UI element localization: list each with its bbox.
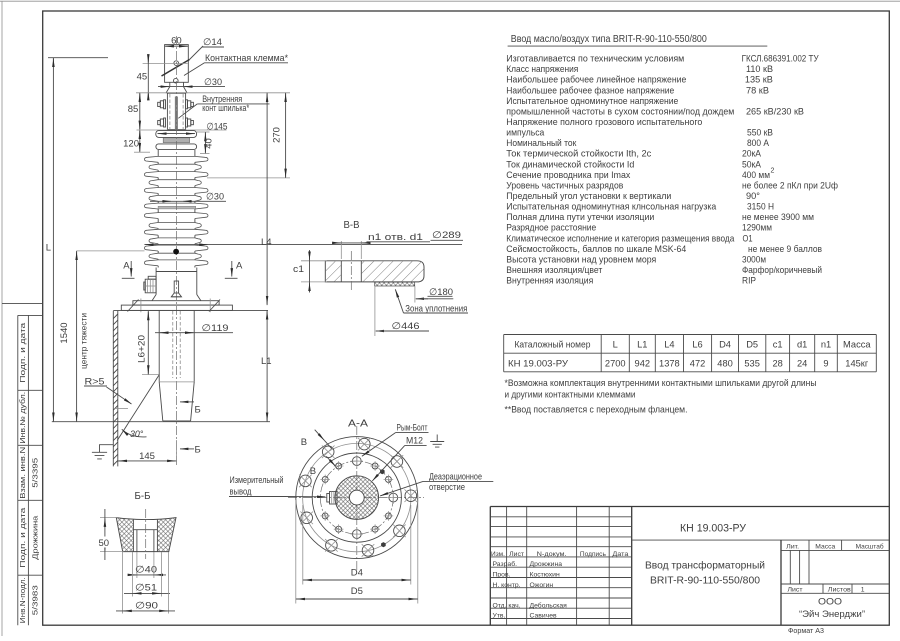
svg-text:вывод: вывод [230,487,253,497]
svg-text:А: А [236,261,243,272]
svg-text:c1: c1 [293,264,304,274]
svg-text:В: В [310,466,316,477]
svg-text:Сейсмостойкость, баллов по шка: Сейсмостойкость, баллов по шкале MSK-64 [506,244,686,254]
svg-text:5/3395: 5/3395 [33,458,40,488]
sheet outer border [0,0,900,2]
svg-text:Изготавливается по техническим: Изготавливается по техническим условиям [506,54,684,64]
svg-text:∅30: ∅30 [206,192,224,203]
A-A outer circles [296,437,418,559]
catalog table grid [504,334,877,336]
title block outer [490,506,889,508]
svg-text:Разрядное расстояние: Разрядное расстояние [506,223,596,233]
svg-text:Утв.: Утв. [493,613,506,620]
deaeration holes (hex) [380,469,385,474]
svg-text:Сечение проводника при Imax: Сечение проводника при Imax [506,170,630,180]
svg-text:Деаэрационное: Деаэрационное [429,472,482,482]
cone diagonal [117,375,159,441]
dim 45 [147,57,149,99]
svg-text:В-В: В-В [344,220,360,231]
svg-text:Пров.: Пров. [493,572,511,579]
svg-text:D5: D5 [351,586,363,597]
svg-text:24: 24 [797,358,807,368]
svg-text:550 кВ: 550 кВ [747,128,773,138]
terminal body [165,45,189,83]
dim L4 [266,93,268,305]
svg-text:Формат А3: Формат А3 [788,626,824,635]
svg-text:1378: 1378 [659,358,680,368]
svg-text:Уровень частичных разрядов: Уровень частичных разрядов [506,180,623,190]
svg-text:535: 535 [744,358,760,368]
dim D4 [302,505,304,585]
svg-text:импульса: импульса [506,128,545,138]
svg-text:А: А [123,261,130,272]
svg-text:Ток термической стойкости Ith,: Ток термической стойкости Ith, 2с [506,149,651,159]
svg-text:ООО: ООО [818,597,842,608]
svg-text:**Ввод поставляется с переход: **Ввод поставляется с переходным фланцем… [505,405,688,415]
svg-text:промышленной частоты в сухом с: промышленной частоты в сухом состоянии/п… [506,107,734,117]
svg-text:Класс напряжения: Класс напряжения [506,64,578,74]
terminal hole upper [174,61,179,66]
B-B flange body [325,261,424,282]
svg-text:Костюхин: Костюхин [530,572,560,579]
cement band mid [158,206,196,209]
svg-text:“Эйч Энерджи”: “Эйч Энерджи” [799,609,865,620]
dim d145 ref line [137,129,227,131]
svg-text:270: 270 [272,127,283,143]
svg-text:и другими контактными клеммами: и другими контактными клеммами [505,390,636,400]
svg-text:М12: М12 [406,436,423,446]
svg-text:45: 45 [137,72,148,83]
svg-text:∅90: ∅90 [135,600,158,611]
stud bolts [164,100,166,109]
svg-text:Измерительный: Измерительный [230,475,284,485]
dim 85 [139,93,141,130]
dim 50 [100,517,118,519]
A-A small holes ring [387,491,399,503]
ground symbol wall [92,445,113,459]
svg-text:3150 Н: 3150 Н [747,202,774,212]
svg-text:Инв.№ дубл.: Инв.№ дубл. [19,392,27,444]
center of gravity dot [173,249,179,255]
svg-text:Фарфор/коричневый: Фарфор/коричневый [742,265,822,275]
dim d30 neck [158,86,225,88]
dim 145 [175,440,177,465]
A-A axes [356,426,358,570]
tube [158,310,160,382]
svg-text:Каталожный номер: Каталожный номер [514,339,590,349]
svg-text:Полная длина пути утечки изоля: Полная длина пути утечки изоляции [506,212,654,222]
svg-text:145кг: 145кг [845,358,869,368]
svg-text:2: 2 [771,168,775,175]
bottom pin [174,281,178,293]
svg-text:472: 472 [690,358,706,368]
svg-text:не менее 9 баллов: не менее 9 баллов [748,244,822,254]
svg-text:КН 19.003-РУ: КН 19.003-РУ [508,358,568,368]
svg-text:30°: 30° [130,429,144,439]
svg-text:Рым-Болт: Рым-Болт [397,423,428,433]
dim 1540 [76,251,78,422]
svg-text:Б: Б [195,405,201,416]
svg-text:265 кВ/230 кВ: 265 кВ/230 кВ [746,107,804,117]
dim d30 core [150,200,226,202]
measuring tap box [145,279,156,293]
svg-text:Листов: Листов [828,587,851,594]
svg-text:145: 145 [139,451,155,462]
svg-text:50: 50 [99,538,110,549]
dim D5 [295,500,297,604]
svg-text:Внешняя изоляция/цвет: Внешняя изоляция/цвет [506,265,603,275]
flange hole marks [140,299,142,313]
svg-text:Дата: Дата [612,551,628,558]
svg-text:L: L [613,339,618,349]
svg-text:Б: Б [195,445,201,456]
svg-text:Контактная клемма*: Контактная клемма* [205,53,288,63]
ground symbol A-A [430,435,444,448]
cement band [163,138,189,143]
svg-text:Отд. кач.: Отд. кач. [493,602,521,609]
dim d145 arrows [157,133,195,135]
svg-text:Масштаб: Масштаб [856,542,884,550]
flange plates [133,301,219,305]
dim 120 [139,130,141,152]
svg-text:D5: D5 [746,339,758,349]
base cylinder [155,268,157,295]
svg-text:Масса: Масса [815,543,835,550]
dim c1 [301,260,327,262]
svg-text:85: 85 [128,104,139,115]
d14 leader diagonal [162,60,190,77]
hidden lines in stud [169,94,171,129]
dim L6+20 [142,374,160,376]
svg-text:D4: D4 [719,339,731,349]
svg-text:120: 120 [123,139,139,150]
dim 60 [165,45,189,47]
left column cells [2,303,43,305]
svg-text:d1: d1 [797,339,807,349]
svg-text:∅40: ∅40 [135,564,157,575]
dim d90 [122,552,124,614]
svg-text:L6: L6 [692,339,702,349]
svg-text:800 А: 800 А [747,138,770,148]
svg-text:90°: 90° [746,191,760,201]
svg-text:Масса: Масса [843,339,871,349]
B section arrows [180,401,194,403]
svg-text:Испытательное одноминутное нап: Испытательное одноминутное напряжение [506,96,678,106]
svg-text:Лит.: Лит. [786,543,799,550]
svg-text:5/3983: 5/3983 [33,585,40,615]
dim d40 [136,552,138,578]
dim d119 [155,332,233,334]
svg-text:Ожогин: Ожогин [530,582,554,589]
svg-text:50кА: 50кА [742,159,762,169]
inner contact stud rod [175,97,178,130]
svg-text:∅446: ∅446 [392,321,420,332]
svg-text:А-А: А-А [348,419,369,430]
top ref line long [136,92,290,94]
svg-text:∅289: ∅289 [432,230,461,241]
svg-text:1540: 1540 [59,322,70,343]
svg-text:Дрожжина: Дрожжина [33,516,40,560]
svg-text:∅30: ∅30 [204,77,222,88]
stud body [167,93,185,129]
svg-text:Наибольшее рабочее линейное на: Наибольшее рабочее линейное напряжение [506,75,686,85]
svg-text:Ввод масло/воздух типа BRIT-R-: Ввод масло/воздух типа BRIT-R-90-110-550… [511,34,707,45]
svg-text:n1: n1 [821,339,831,349]
svg-text:не менее 3900 мм: не менее 3900 мм [742,212,814,222]
svg-text:2700: 2700 [605,358,626,368]
svg-text:Ток динамической стойкости Id: Ток динамической стойкости Id [506,159,634,169]
svg-text:L4: L4 [664,339,674,349]
svg-text:Дебольская: Дебольская [530,601,568,609]
svg-text:Наибольшее рабочее фазное напр: Наибольшее рабочее фазное напряжение [506,85,674,95]
svg-text:28: 28 [773,358,783,368]
svg-text:Испытательная одноминутная клн: Испытательная одноминутная клнсольная на… [506,202,717,212]
svg-text:Предельный угол установки к ве: Предельный угол установки к вертикали [506,191,671,201]
bottom ref line [52,421,270,423]
svg-text:Ввод трансформаторный: Ввод трансформаторный [645,560,765,572]
svg-text:20кА: 20кА [742,149,762,159]
head plate [156,144,197,150]
svg-text:78 кВ: 78 кВ [746,85,769,95]
dim L1 [266,310,268,421]
svg-text:Б-Б: Б-Б [135,491,151,502]
sealing gasket zone [375,282,415,286]
svg-text:Зона уплотнения: Зона уплотнения [405,304,467,314]
svg-text:c1: c1 [773,339,783,349]
svg-text:110 кВ: 110 кВ [746,64,773,74]
main axis [175,36,177,466]
dim L [48,57,108,59]
svg-text:942: 942 [635,358,651,368]
svg-text:ГКСЛ.686391.002 ТУ: ГКСЛ.686391.002 ТУ [742,54,819,64]
svg-text:В: В [301,437,307,448]
svg-text:Лист: Лист [509,551,524,558]
V section arrows [315,430,325,441]
dim d51 [131,552,133,597]
30 deg arc [122,429,147,437]
neck [166,82,187,93]
right section [780,540,782,625]
svg-text:L6+20: L6+20 [136,335,146,363]
svg-text:n1 отв. d1: n1 отв. d1 [368,232,423,242]
svg-text:∅14: ∅14 [203,37,222,48]
dim n1 otv d1 [340,241,342,259]
svg-text:L: L [46,243,51,254]
svg-text:отверстие: отверстие [429,482,465,492]
A-A large bolt holes n1 [405,489,418,502]
svg-text:КН 19.003-РУ: КН 19.003-РУ [680,523,747,535]
dim d289 [144,244,462,246]
svg-text:RIP: RIP [742,276,756,286]
gasket outline [116,518,176,552]
dim 270 [207,177,290,179]
svg-text:1290мм: 1290мм [742,223,772,233]
svg-text:L4: L4 [261,237,272,248]
svg-text:135 кВ: 135 кВ [745,75,773,85]
svg-text:∅51: ∅51 [135,582,157,593]
svg-text:R>5: R>5 [85,377,105,387]
top flange d145 [156,131,197,138]
svg-text:D4: D4 [351,568,363,579]
svg-text:Подп. и дата: Подп. и дата [20,508,27,568]
svg-text:Инв.N-подл.: Инв.N-подл. [20,577,27,623]
dim 40 [197,131,210,133]
title block rows left part [490,516,631,518]
svg-text:Внутренняя изоляция: Внутренняя изоляция [506,276,593,286]
svg-text:∅145: ∅145 [207,121,228,132]
designation cell line [632,539,890,541]
svg-text:Лист: Лист [788,587,803,594]
porcelain fins [144,156,208,162]
porcelain neck edges [157,150,159,268]
svg-text:конт шпилька*: конт шпилька* [202,103,249,113]
wall hatched [112,311,114,467]
svg-text:центр тяжести: центр тяжести [79,313,89,369]
mounting surface [113,309,268,311]
svg-text:L1: L1 [261,356,272,367]
svg-text:*Возможна комплектация внутрен: *Возможна комплектация внутренними конта… [505,378,817,388]
A-A hub crosshatched [335,476,379,520]
svg-text:480: 480 [717,358,733,368]
svg-text:Климатическое исполнение и кат: Климатическое исполнение и категория раз… [506,233,735,243]
svg-text:не более 2 пКл при 2Uф: не более 2 пКл при 2Uф [742,180,838,190]
svg-text:Разраб.: Разраб. [493,560,518,568]
svg-text:400 мм: 400 мм [742,170,770,180]
svg-text:Взам. инв.N: Взам. инв.N [20,447,27,499]
svg-text:BRIT-R-90-110-550/800: BRIT-R-90-110-550/800 [650,575,760,587]
svg-text:Изм.: Изм. [491,551,505,558]
svg-text:О1: О1 [743,233,753,243]
dim d446 [374,286,376,336]
svg-text:L1: L1 [637,339,647,349]
svg-text:Напряжение полного грозового и: Напряжение полного грозового испытательн… [506,117,702,127]
hole center gray line [143,62,188,64]
svg-text:Высота установки над уровнем м: Высота установки над уровнем моря [506,254,656,264]
svg-text:N-докум.: N-докум. [537,551,567,558]
svg-text:9: 9 [823,358,828,368]
A-A measuring tap [330,492,338,505]
svg-text:∅119: ∅119 [202,323,229,334]
svg-text:Подпись: Подпись [580,551,606,558]
title block columns left part [506,507,508,626]
svg-text:Подп. и дата: Подп. и дата [20,323,27,383]
svg-text:Н. контр.: Н. контр. [493,582,521,589]
terminal hole lower [174,78,179,83]
svg-text:Дрожжина: Дрожжина [530,561,563,568]
svg-text:40: 40 [204,138,215,149]
svg-text:Номинальный ток: Номинальный ток [506,138,577,148]
svg-text:Савичев: Савичев [530,613,557,620]
dim d180 [414,286,416,302]
svg-text:3000м: 3000м [742,254,766,264]
svg-text:1: 1 [861,587,865,594]
